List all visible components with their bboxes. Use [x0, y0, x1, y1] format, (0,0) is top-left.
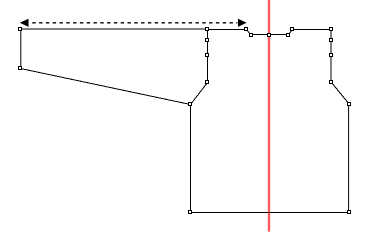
wire: right side seam (BR to L) — [348, 105, 350, 213]
node B — [19, 67, 22, 70]
node N5 — [291, 28, 294, 31]
wire: top edge left gray (A to D) — [21, 28, 208, 30]
node N3 — [268, 34, 271, 37]
wire: left edge gray (A to B) — [20, 29, 22, 69]
wire: top edge right (N5 to H) — [292, 29, 332, 31]
wire: top edge (D to N1) — [208, 29, 248, 31]
wire: armhole curve (G to C) — [191, 83, 208, 105]
wire: right curve (L to K) — [332, 83, 350, 105]
wire: bottom hem (BL to BR) — [190, 212, 350, 214]
measurement arrow: dashed line — [32, 22, 237, 24]
node C — [189, 103, 192, 106]
measurement arrow: right arrowhead — [238, 19, 247, 27]
node K — [330, 81, 333, 84]
node G — [206, 81, 209, 84]
node J — [330, 54, 333, 57]
node N1 — [245, 28, 248, 31]
node I — [330, 39, 333, 42]
node N4 — [287, 34, 290, 37]
wire: inner left edge (D to G) — [207, 29, 209, 83]
wire: right upper edge gray (K to H) — [330, 29, 332, 83]
red vertical guide line — [268, 0, 270, 232]
node BL — [189, 211, 192, 214]
wire: neckline dip (N1-N2-N3-N4-N5) — [247, 30, 293, 35]
node A — [19, 28, 22, 31]
wire: diagonal (B to C) — [21, 69, 191, 105]
node E — [206, 39, 209, 42]
node N2 — [250, 34, 253, 37]
node L — [348, 103, 351, 106]
node H — [330, 28, 333, 31]
node F — [206, 54, 209, 57]
wire: left side seam (C to BL) — [190, 105, 192, 213]
measurement arrow: left arrowhead — [20, 19, 29, 27]
node D — [206, 28, 209, 31]
node BR — [348, 211, 351, 214]
